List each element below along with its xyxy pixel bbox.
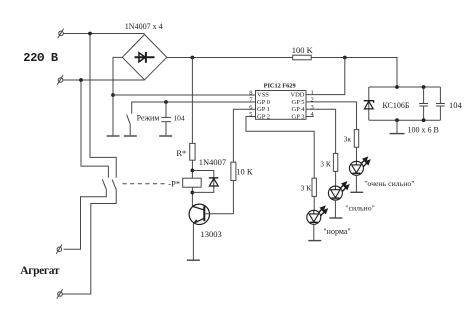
svg-text:3 К: 3 К — [301, 184, 313, 193]
svg-text:Агрегат: Агрегат — [20, 265, 60, 277]
svg-text:3: 3 — [311, 104, 314, 111]
svg-text:8: 8 — [249, 89, 252, 96]
svg-text:10 К: 10 К — [236, 167, 253, 177]
svg-text:PIC12 F629: PIC12 F629 — [264, 83, 296, 90]
svg-text:1N4007 x 4: 1N4007 x 4 — [125, 22, 163, 31]
svg-text:13003: 13003 — [201, 229, 222, 239]
svg-text:"очень сильно": "очень сильно" — [364, 179, 414, 188]
svg-text:2: 2 — [311, 97, 314, 104]
svg-text:100 x 6 В: 100 x 6 В — [408, 126, 439, 135]
svg-text:1: 1 — [311, 89, 314, 96]
svg-text:GP 5: GP 5 — [292, 99, 305, 106]
svg-text:22Θ В: 22Θ В — [23, 51, 58, 65]
svg-text:GP 1: GP 1 — [257, 106, 270, 113]
svg-text:R*: R* — [176, 148, 186, 158]
svg-text:GP 0: GP 0 — [257, 99, 270, 106]
svg-text:GP 4: GP 4 — [292, 106, 306, 113]
svg-text:GP 3: GP 3 — [292, 113, 305, 120]
svg-text:104: 104 — [173, 113, 185, 122]
svg-text:1N4007: 1N4007 — [199, 157, 226, 167]
svg-text:100 K: 100 K — [292, 45, 314, 55]
svg-text:VSS: VSS — [257, 91, 269, 98]
svg-text:КС106Б: КС106Б — [382, 101, 409, 110]
svg-text:5: 5 — [249, 111, 252, 118]
svg-text:"сильно": "сильно" — [345, 203, 375, 212]
svg-text:-Р*: -Р* — [168, 178, 180, 188]
svg-text:"норма": "норма" — [323, 227, 350, 236]
svg-text:GP 2: GP 2 — [257, 113, 270, 120]
svg-text:3 К: 3 К — [320, 160, 332, 169]
svg-text:3к: 3к — [344, 134, 352, 143]
svg-text:104: 104 — [449, 100, 463, 110]
svg-text:VDD: VDD — [290, 91, 304, 98]
svg-text:Режим: Режим — [137, 114, 160, 123]
